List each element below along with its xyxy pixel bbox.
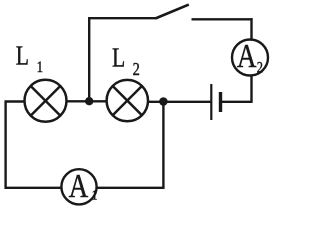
svg-text:L: L <box>112 44 125 74</box>
wire: horizontal from right vertical to battery <box>222 101 252 103</box>
wire: right vertical down to ammeter A2 <box>250 18 252 40</box>
svg-text:1: 1 <box>37 59 43 77</box>
wire: top horizontal left of switch <box>88 17 156 19</box>
ammeter A2 <box>232 40 268 76</box>
label L2 <box>112 44 140 80</box>
svg-text:1: 1 <box>92 187 98 202</box>
node junction dot right of L2 <box>159 97 168 106</box>
wire: horizontal from battery to L2 <box>149 101 211 103</box>
wire: left vertical <box>4 102 6 189</box>
wire: vertical up from junction to top wire <box>88 17 90 102</box>
ammeter A1 <box>61 169 96 204</box>
node junction dot between L1 and L2 <box>85 97 93 105</box>
lamp L2 <box>107 80 148 121</box>
wire: top horizontal right of switch <box>192 18 253 20</box>
battery plate long (positive) <box>210 84 212 120</box>
svg-text:A: A <box>237 37 257 75</box>
label A2 <box>237 37 263 77</box>
label L1 <box>16 41 43 76</box>
wire: vertical from right junction down to bottom wire <box>162 102 164 189</box>
battery plate short (negative) <box>219 92 222 112</box>
switch S1 (open blade) <box>155 5 189 19</box>
wire: bottom horizontal right of A1 <box>96 187 165 189</box>
wire: L1 to L2 <box>66 100 107 102</box>
label A1 <box>69 167 98 205</box>
wire: left horizontal to L1 <box>5 100 26 102</box>
svg-text:A: A <box>69 167 89 205</box>
svg-text:L: L <box>16 41 29 71</box>
lamp L1 <box>25 80 67 122</box>
svg-text:2: 2 <box>133 58 140 79</box>
wire: bottom horizontal left of A1 <box>5 187 63 189</box>
wire: vertical from A2 down to battery wire <box>250 76 252 103</box>
svg-text:2: 2 <box>257 59 263 77</box>
